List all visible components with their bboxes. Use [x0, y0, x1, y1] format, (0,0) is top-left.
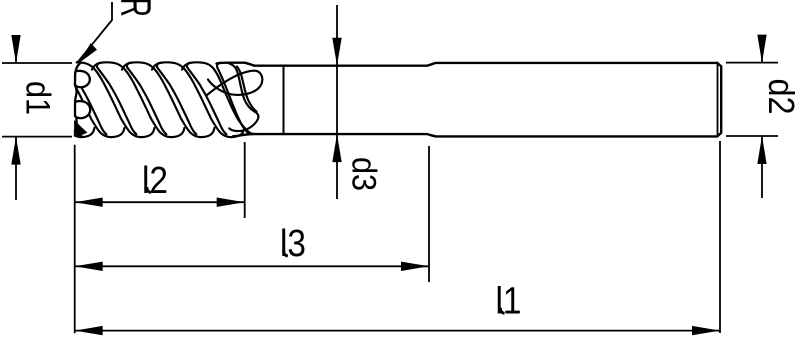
svg-text:d3: d3: [345, 157, 383, 191]
svg-text:l2: l2: [142, 159, 168, 201]
svg-text:R: R: [112, 0, 160, 17]
svg-text:l3: l3: [280, 222, 306, 264]
svg-text:d2: d2: [761, 78, 800, 114]
svg-text:d1: d1: [19, 81, 57, 115]
svg-text:l1: l1: [495, 280, 521, 322]
